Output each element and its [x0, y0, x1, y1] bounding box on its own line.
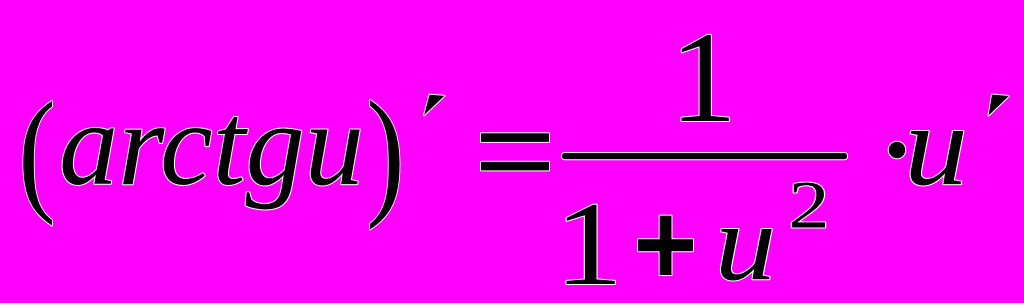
- svg-text:1: 1: [670, 5, 737, 150]
- svg-text:): ): [366, 73, 405, 231]
- prime after right u: [989, 95, 1010, 116]
- svg-text:1: 1: [554, 177, 623, 303]
- svg-text:arctgu: arctgu: [59, 78, 364, 210]
- multiplication dot: [889, 142, 906, 159]
- equals sign bottom bar: [481, 162, 549, 171]
- svg-text:u: u: [715, 183, 776, 303]
- svg-text:(: (: [18, 75, 55, 227]
- svg-text:2: 2: [788, 168, 829, 242]
- fraction bar: [562, 153, 847, 159]
- svg-text:u: u: [904, 82, 968, 209]
- plus sign: [638, 216, 693, 275]
- prime after parenthesis: [424, 95, 445, 116]
- equals sign top bar: [481, 133, 549, 142]
